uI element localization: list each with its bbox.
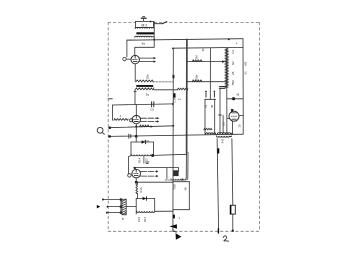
detector box left edge — [130, 142, 132, 155]
node blob top of V4 — [231, 109, 233, 112]
core bar of antenna transformer — [136, 32, 154, 34]
wire grid cap to V1 — [126, 58, 131, 60]
svg-text:6.3: 6.3 — [231, 49, 235, 53]
svg-text:61: 61 — [244, 71, 248, 75]
main bus vertical left x173 — [172, 48, 174, 231]
valve V1 — [131, 55, 139, 63]
wire T2 secondary right lead — [154, 89, 178, 91]
wire V4 grid stub — [227, 118, 229, 120]
arrowhead — [156, 175, 158, 177]
RC network right vertical — [214, 99, 216, 134]
arrowhead R12 — [151, 125, 154, 127]
node dot top of L1 — [150, 21, 152, 23]
speaker box top — [173, 181, 189, 183]
arrowhead — [154, 60, 156, 62]
svg-text:v8: v8 — [236, 92, 239, 96]
wire x243 lower — [242, 116, 244, 135]
capacitor C5 — [151, 102, 153, 107]
switch arrow to border — [162, 22, 167, 24]
volume feed down — [128, 155, 131, 173]
speaker wire right x233 — [231, 139, 234, 206]
node blob at border line2 — [108, 135, 111, 138]
svg-text:2c0: 2c0 — [124, 210, 128, 215]
winding bumps set1 under chassis — [205, 133, 215, 134]
wire V1 cathode down — [134, 64, 136, 82]
speaker wire left x218 — [217, 139, 219, 232]
svg-text:Ca: Ca — [222, 122, 226, 126]
speaker box bottom — [173, 209, 189, 211]
svg-text:3a: 3a — [146, 93, 150, 97]
ratio det box right drop — [177, 168, 179, 172]
resistor R9 — [192, 80, 202, 82]
V3 electrode lead upper — [141, 170, 157, 172]
capacitor C7 below coil — [219, 86, 225, 88]
svg-text:7M2: 7M2 — [231, 80, 235, 86]
IF transformer T2 secondary — [135, 88, 154, 90]
antenna coil unit L1 box — [135, 21, 153, 27]
svg-text:25k: 25k — [145, 74, 149, 79]
box D2 right edge — [154, 199, 156, 212]
wire hatched to D2 — [126, 206, 136, 208]
speaker box right — [188, 182, 190, 210]
wire grid feed V1 — [127, 40, 135, 57]
V1 electrode lead upper — [139, 57, 153, 59]
arrowhead R8 — [222, 60, 225, 63]
node dot ratio det — [181, 179, 183, 181]
node blob at border — [108, 126, 111, 129]
wire R16 bottom — [137, 193, 139, 198]
connecting line y99 — [205, 98, 216, 100]
wire y104 left drop — [112, 105, 114, 120]
svg-text:4a: 4a — [142, 42, 146, 46]
node blob on bus x173 upper — [173, 75, 175, 78]
node dot on bus — [228, 38, 230, 40]
detector winding — [132, 155, 154, 156]
arrowhead — [157, 120, 159, 122]
svg-text:48: 48 — [183, 187, 187, 191]
chassis long line — [109, 134, 243, 136]
handwritten 2 — [223, 236, 228, 241]
svg-text:b: b — [122, 217, 124, 221]
winding bumps second row below — [216, 136, 231, 137]
detector box D1 top — [131, 141, 154, 143]
resistor R5 grid V2 — [114, 119, 128, 121]
V3 electrode lead lower — [141, 175, 157, 177]
node dot — [135, 135, 138, 138]
chassis dashed border right — [258, 22, 260, 231]
wire B+ bus horizontal — [127, 39, 243, 41]
node dot at x173 — [172, 103, 174, 105]
capacitor C9 dash — [213, 93, 215, 97]
wire coil bottom to cap — [225, 86, 227, 88]
wire det to x187 — [154, 154, 187, 155]
node dot x173 — [172, 125, 174, 127]
terminal bus vertical — [120, 200, 122, 213]
tick secondary left — [134, 91, 136, 93]
node dot R4 to HT line — [186, 89, 188, 91]
thin continuation x186 double — [185, 153, 187, 179]
hatched component — [122, 199, 126, 215]
node dot thick line chassis — [186, 134, 188, 136]
blob capacitor on x173 — [173, 215, 175, 219]
vertical wire x210 — [209, 48, 211, 99]
chassis dashed border bottom — [108, 230, 259, 232]
diode D1 — [142, 140, 146, 144]
valve V4 — [229, 111, 239, 121]
chassis dashed border top — [108, 21, 259, 23]
grid cap G3 — [128, 174, 131, 177]
mains terminal 3 — [106, 212, 108, 214]
wire line2 — [187, 81, 227, 83]
diode arrow on x173 — [170, 224, 177, 228]
wire transformer right vertical — [153, 22, 155, 48]
V1 electrode lead lower — [139, 61, 153, 63]
ratio det box left edge — [166, 168, 168, 179]
secondary winding L1b — [135, 36, 154, 37]
node dot — [135, 126, 137, 128]
svg-text:C16: C16 — [137, 216, 141, 222]
RC network left vertical — [204, 99, 206, 134]
svg-text:R17: R17 — [143, 216, 147, 222]
V2 electrode lead lower — [141, 121, 158, 123]
box D2 winding — [137, 211, 155, 212]
wire cap down left — [219, 88, 221, 133]
mains terminal 1 — [102, 199, 104, 201]
capacitor ticks on chassis line — [128, 134, 130, 138]
svg-text:C5: C5 — [150, 108, 154, 112]
tick top of loop — [219, 114, 221, 116]
speaker loop wire b — [222, 115, 224, 133]
output arrow exit — [173, 230, 177, 233]
svg-text:1M: 1M — [194, 55, 198, 60]
AGC line y126 — [109, 126, 173, 128]
capacitor C15 stub — [143, 156, 145, 163]
wire V3 cathode — [135, 178, 137, 182]
svg-text:M1: M1 — [244, 61, 248, 65]
wire plate loop V1 — [135, 47, 154, 55]
node dot at border — [232, 230, 234, 232]
svg-text:341: 341 — [220, 138, 224, 143]
V2 electrode lead upper — [141, 117, 158, 119]
svg-text:C13: C13 — [145, 158, 149, 164]
wire T2 secondary left drop — [134, 90, 136, 105]
node blob — [232, 97, 235, 100]
svg-text:10: 10 — [238, 124, 242, 128]
chassis dashed border left — [107, 22, 109, 231]
resistor R12 on AGC line — [140, 125, 150, 127]
svg-text:M 2: M 2 — [142, 23, 148, 27]
fuse rectangle — [230, 205, 235, 214]
antenna terminal A — [141, 17, 146, 22]
grid cap G2 — [130, 119, 133, 122]
wire below fuse — [232, 214, 234, 231]
resistor R8 — [192, 60, 202, 62]
wire plate V2 line y104 — [113, 104, 173, 105]
node dot plate feed — [153, 39, 155, 41]
wire V2 cathode down — [135, 124, 137, 137]
resistor R11 lower — [204, 128, 212, 130]
node dot box corner — [172, 48, 174, 50]
detector box right edge — [153, 142, 155, 155]
mains terminal 2 — [107, 206, 109, 208]
bottom crossing tick x218 — [217, 229, 219, 233]
right edge wire x243 — [242, 39, 244, 115]
ratio det winding — [171, 179, 185, 180]
wire V4 cathode — [231, 121, 233, 134]
valve V2 — [132, 115, 140, 123]
wire V2 plate up — [135, 105, 137, 116]
primary winding L1a — [135, 27, 154, 28]
output line y182 — [136, 181, 173, 183]
wire junction to right edge — [227, 98, 243, 100]
ratio det dark element — [173, 170, 178, 176]
wire R16 top — [137, 182, 139, 184]
box D2 left edge — [135, 199, 137, 215]
wire D2 to speaker box — [155, 210, 173, 212]
polarity tick on x218 — [217, 148, 219, 153]
screen box top edge — [173, 46, 243, 49]
wire T2 primary right lead — [153, 81, 174, 83]
svg-text:50k: 50k — [194, 74, 198, 79]
wire V4 plate stub — [239, 115, 243, 117]
node blob — [151, 154, 154, 157]
ground marks — [146, 161, 149, 163]
svg-text:R16: R16 — [139, 187, 143, 193]
core bar T2 — [136, 85, 153, 87]
mains arrow — [97, 205, 101, 209]
capacitor C8 dash — [205, 93, 207, 97]
HT thick line x187 — [186, 39, 188, 152]
svg-text:R14: R14 — [137, 157, 141, 163]
oscillator coil L3 — [226, 48, 228, 87]
grid cap G1 — [123, 57, 126, 60]
wire chassis to D1 — [135, 137, 137, 142]
wire box output right — [154, 23, 162, 25]
winding bumps set2 under chassis — [218, 133, 233, 134]
valve V3 — [132, 169, 141, 178]
arrowhead — [157, 117, 159, 119]
arrowhead — [154, 57, 156, 59]
svg-text:R19: R19 — [173, 184, 177, 190]
resistor R16 vertical — [136, 184, 138, 194]
wire AVC line1 — [187, 61, 227, 63]
tuning mark Q — [97, 127, 104, 134]
diode D2 — [143, 197, 147, 201]
svg-text:2A: 2A — [231, 71, 235, 75]
wire coil line down — [226, 88, 228, 134]
capacitor blob on bus x173 lower — [173, 93, 176, 97]
node dot — [134, 167, 136, 169]
svg-text:N2: N2 — [231, 61, 235, 65]
svg-text:+: + — [236, 41, 238, 45]
base line under winding — [165, 179, 187, 181]
resistor R4 — [177, 88, 188, 90]
rectifier box D2 top — [136, 198, 155, 200]
wire V3 plate line — [134, 167, 179, 169]
arrowhead — [156, 170, 158, 172]
IF transformer T2 primary — [136, 80, 153, 82]
node dot — [135, 181, 138, 184]
border tick y98 — [108, 98, 112, 100]
